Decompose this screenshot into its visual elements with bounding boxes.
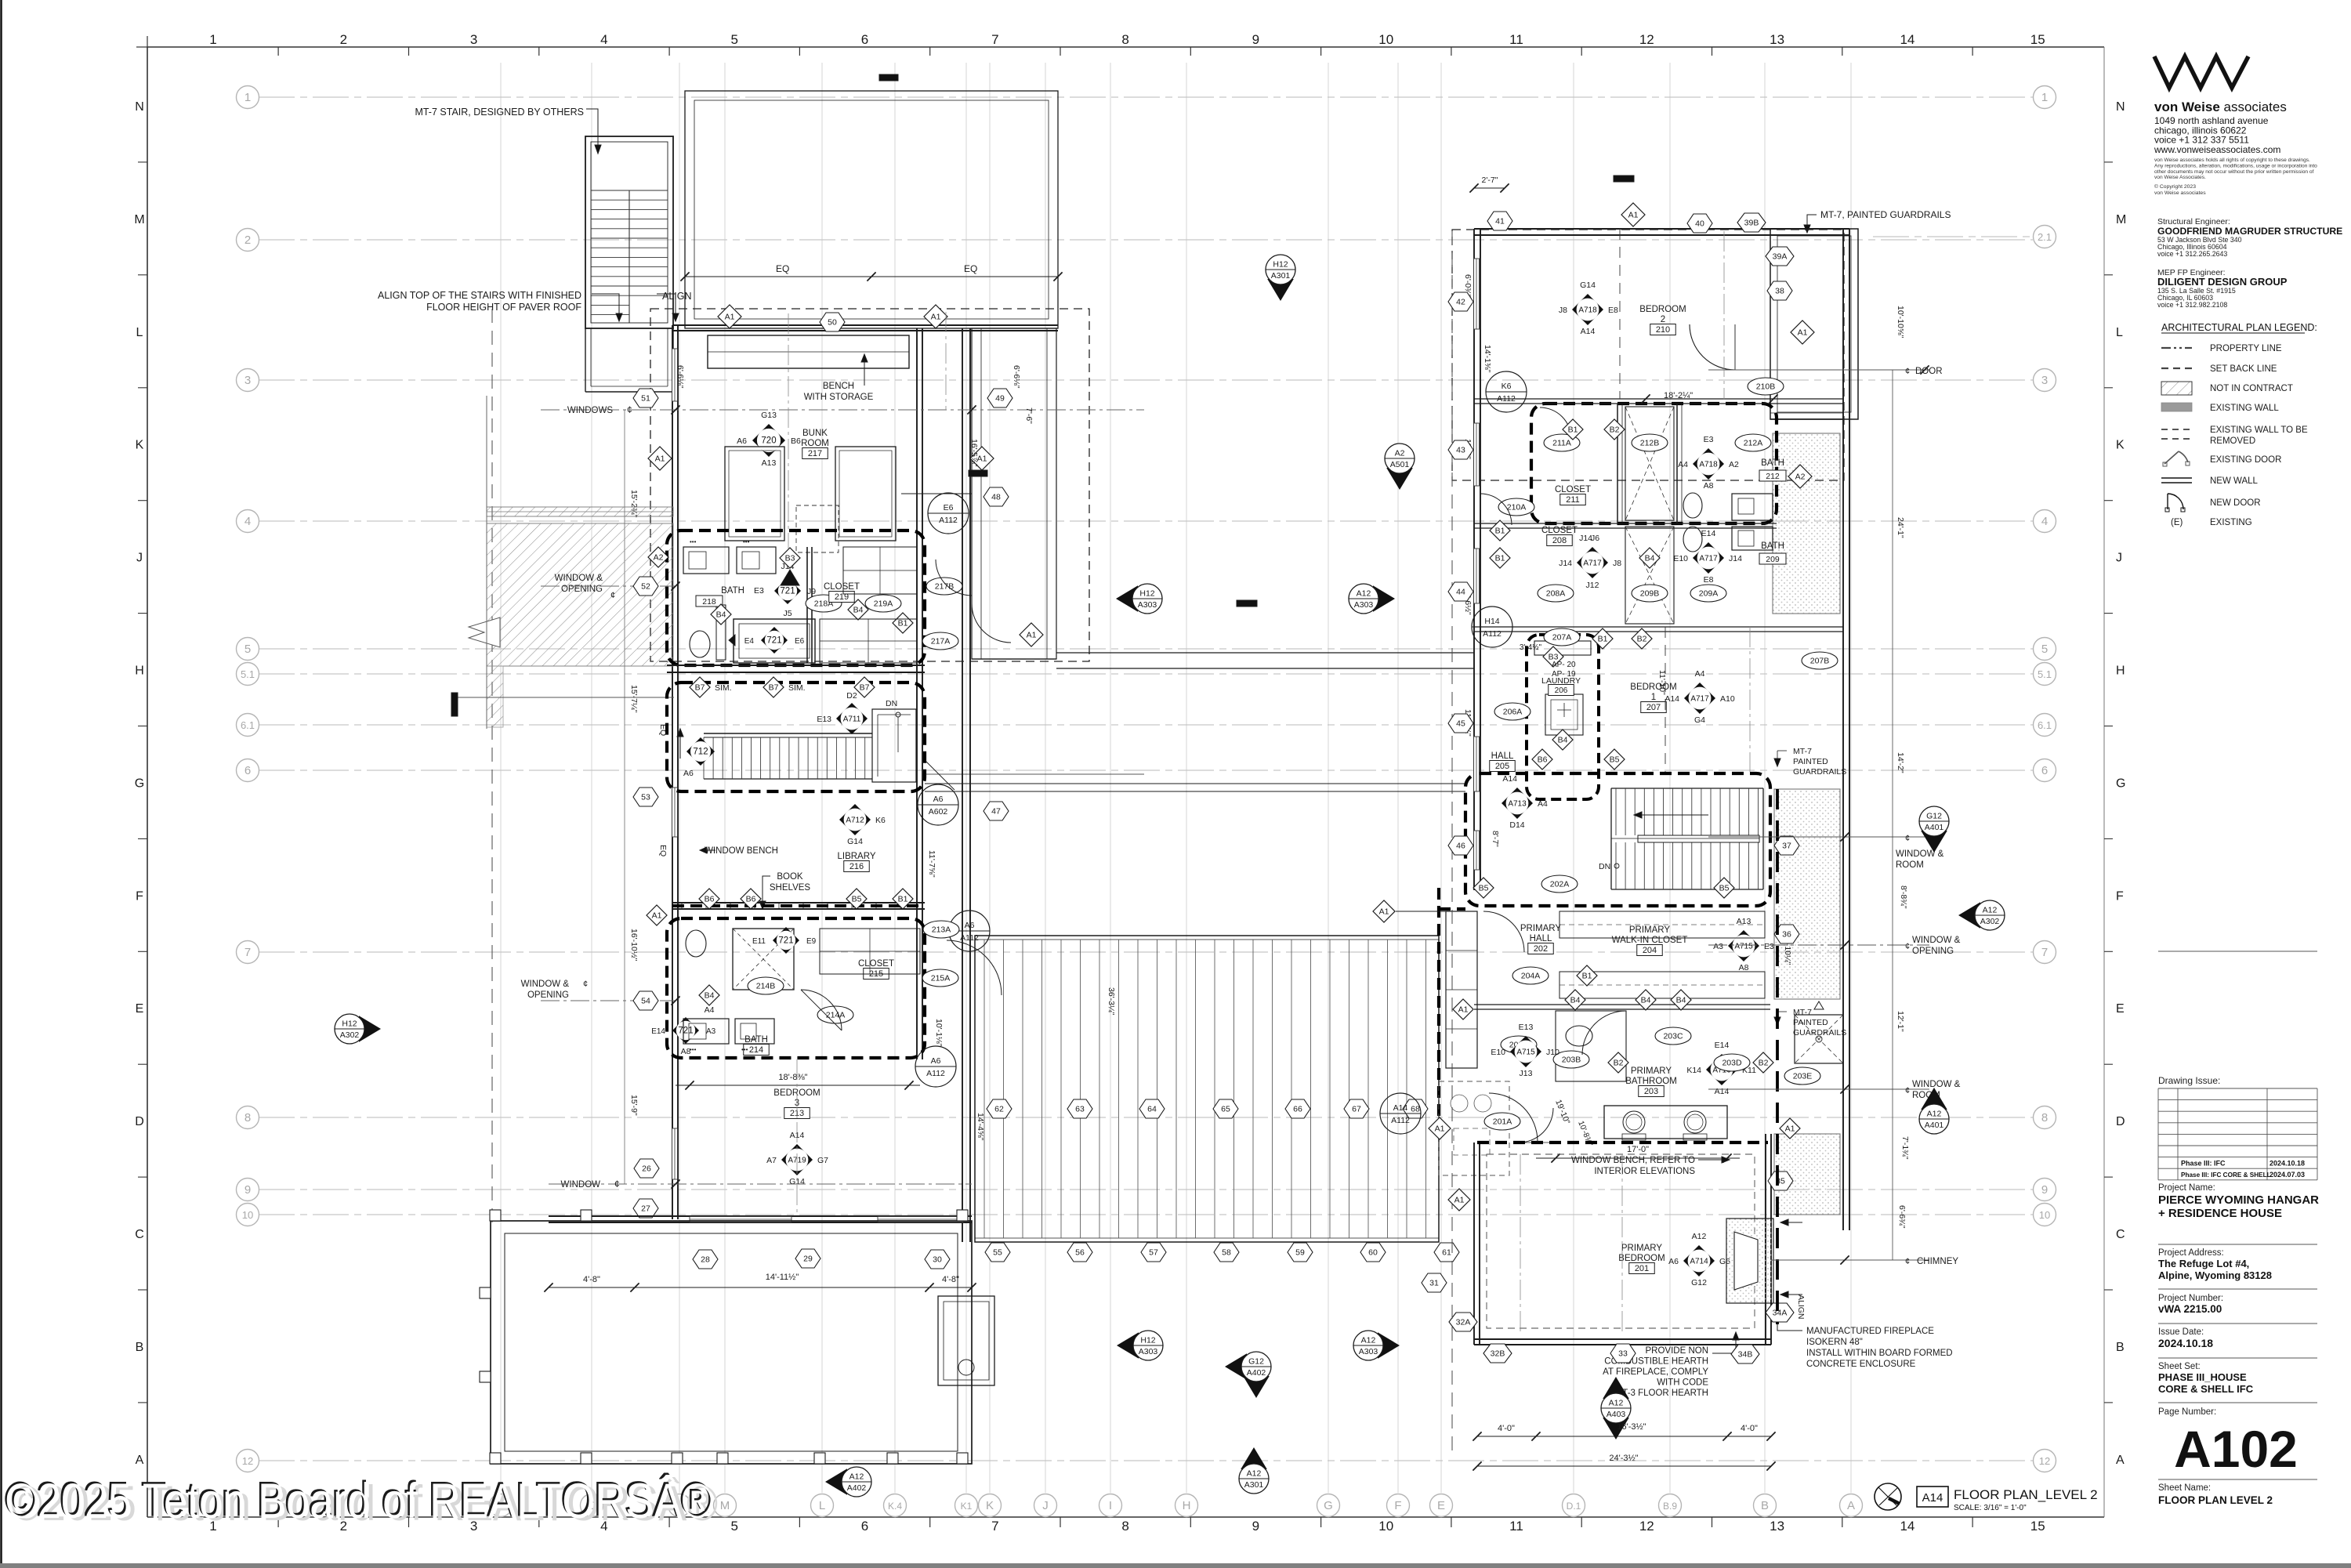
svg-text:ALIGN: ALIGN: [1796, 1295, 1806, 1320]
svg-text:EXISTING: EXISTING: [2210, 518, 2252, 527]
svg-text:15: 15: [2030, 1519, 2045, 1534]
svg-text:HALL: HALL: [1530, 934, 1552, 943]
svg-text:G12: G12: [1926, 812, 1942, 821]
svg-text:E6: E6: [944, 503, 954, 512]
svg-text:B7: B7: [695, 683, 705, 693]
tag diamond B1: [893, 613, 913, 633]
section marker A12/A403: [1601, 1377, 1631, 1439]
svg-text:A4: A4: [1695, 669, 1705, 679]
svg-text:LIBRARY: LIBRARY: [837, 852, 875, 861]
svg-text:64: 64: [1147, 1105, 1157, 1114]
fence line west: [486, 396, 487, 729]
svg-text:6: 6: [861, 1519, 868, 1534]
svg-text:12'-1": 12'-1": [1896, 1011, 1905, 1032]
svg-text:B3: B3: [785, 554, 795, 563]
tag diamond B4: [1552, 730, 1573, 750]
svg-text:7: 7: [2041, 946, 2048, 959]
marker diamond A715: [1510, 1036, 1541, 1067]
svg-text:1: 1: [209, 32, 216, 47]
svg-text:F: F: [1394, 1499, 1401, 1512]
svg-text:3: 3: [470, 32, 477, 47]
svg-text:A717: A717: [1583, 559, 1602, 568]
window tag 46: [1448, 836, 1473, 855]
svg-text:A8: A8: [1704, 481, 1714, 491]
door tag 217B: [926, 578, 962, 595]
door tag 207B: [1802, 652, 1838, 669]
svg-text:J12: J12: [1586, 581, 1599, 590]
room label 217: [801, 429, 829, 459]
svg-text:EXISTING WALL TO BE: EXISTING WALL TO BE: [2210, 425, 2308, 435]
svg-text:K: K: [136, 439, 144, 452]
svg-text:D.1: D.1: [1567, 1501, 1581, 1512]
svg-text:6'-6⅛": 6'-6⅛": [1012, 365, 1021, 389]
east terrace band of left wing: [972, 328, 1056, 659]
svg-text:4: 4: [245, 515, 251, 528]
svg-text:Project Number:: Project Number:: [2158, 1294, 2223, 1303]
svg-text:E4: E4: [744, 637, 755, 646]
bath214 vanity: [683, 1019, 729, 1044]
window tag 26: [634, 1159, 659, 1178]
tag diamond A2: [648, 547, 668, 567]
svg-text:A12: A12: [1927, 1110, 1942, 1119]
svg-text:2: 2: [1661, 315, 1665, 324]
svg-text:ARCHITECTURAL PLAN LEGEND:: ARCHITECTURAL PLAN LEGEND:: [2161, 322, 2317, 333]
svg-text:Phase III: IFC: Phase III: IFC: [2181, 1160, 2226, 1168]
marker diamond A719: [781, 1144, 813, 1175]
svg-text:K1: K1: [961, 1501, 973, 1512]
legend property line: [2161, 347, 2192, 349]
svg-text:E8: E8: [1704, 575, 1714, 585]
svg-text:A3: A3: [706, 1027, 716, 1036]
room label 219: [824, 582, 860, 603]
svg-text:206A: 206A: [1503, 708, 1523, 717]
svg-text:B5: B5: [1719, 884, 1730, 893]
door tag 203A: [1501, 1036, 1537, 1053]
window tag 29: [795, 1249, 820, 1268]
tag diamond A2: [1788, 465, 1812, 488]
svg-text:209A: 209A: [1699, 589, 1719, 599]
svg-text:4: 4: [2041, 515, 2048, 528]
svg-text:A12: A12: [1983, 906, 1998, 915]
svg-text:WITH STORAGE: WITH STORAGE: [804, 393, 874, 402]
legend existing door: [2164, 451, 2188, 464]
svg-text:M: M: [2116, 213, 2126, 226]
svg-text:A303: A303: [1354, 600, 1374, 610]
existing wall stipple strips: [1773, 433, 1840, 614]
svg-text:49: 49: [995, 394, 1005, 404]
tag diamond B2: [1608, 1052, 1628, 1073]
legend existing wall: [2161, 403, 2192, 411]
svg-text:ALIGN TOP OF THE STAIRS WITH F: ALIGN TOP OF THE STAIRS WITH FINISHED: [378, 290, 581, 301]
section marker G12/A401: [1919, 806, 1949, 853]
tag diamond A1: [1448, 1189, 1470, 1211]
svg-text:61: 61: [1442, 1248, 1451, 1258]
svg-text:3'-4½": 3'-4½": [1520, 643, 1542, 652]
marker diamond A717: [1684, 683, 1715, 714]
svg-text:2024.07.03: 2024.07.03: [2269, 1171, 2305, 1179]
bottom-left deck: [491, 1221, 972, 1464]
stair lower flight wall: [585, 328, 586, 392]
svg-text:Project Name:: Project Name:: [2158, 1183, 2215, 1193]
svg-text:50: 50: [828, 318, 837, 328]
window tag 66: [1285, 1099, 1310, 1118]
svg-text:Sheet Name:: Sheet Name:: [2158, 1483, 2211, 1493]
svg-text:MANUFACTURED FIREPLACE: MANUFACTURED FIREPLACE: [1806, 1327, 1934, 1336]
svg-text:E: E: [2116, 1002, 2125, 1016]
svg-text:Alpine, Wyoming 83128: Alpine, Wyoming 83128: [2158, 1269, 2272, 1281]
svg-text:BUNK: BUNK: [802, 429, 828, 438]
svg-text:47: 47: [991, 807, 1001, 817]
room label 215: [858, 959, 894, 980]
window centerline bedroom3: [796, 1059, 798, 1216]
von Weise associates logo: [2154, 56, 2248, 88]
leader from match bar: [457, 697, 674, 698]
svg-text:A112: A112: [1391, 1116, 1410, 1125]
svg-text:¢: ¢: [1905, 367, 1910, 376]
svg-text:60: 60: [1368, 1248, 1378, 1258]
svg-text:A1: A1: [1027, 631, 1037, 640]
window tag 35: [1768, 1171, 1793, 1190]
svg-text:B: B: [136, 1341, 144, 1354]
svg-text:A102: A102: [2174, 1420, 2298, 1478]
svg-text:MT-7, PAINTED GUARDRAILS: MT-7, PAINTED GUARDRAILS: [1820, 209, 1951, 220]
svg-text:A1: A1: [1454, 1196, 1465, 1205]
svg-text:216: 216: [849, 862, 864, 871]
svg-text:B1: B1: [898, 619, 908, 628]
section marker H12/A303: [1116, 584, 1162, 614]
svg-text:201: 201: [1635, 1264, 1649, 1273]
svg-text:PRIMARY: PRIMARY: [1629, 925, 1671, 935]
window tag 43: [1448, 440, 1473, 459]
door tag 218A: [806, 595, 842, 612]
tag diamond A1: [1791, 320, 1814, 344]
svg-text:MT-3 FLOOR HEARTH: MT-3 FLOOR HEARTH: [1615, 1389, 1708, 1398]
svg-text:A3: A3: [1713, 942, 1723, 951]
svg-text:SET BACK LINE: SET BACK LINE: [2210, 364, 2277, 374]
svg-text:CLOSET: CLOSET: [1555, 485, 1591, 494]
svg-text:2'-7": 2'-7": [1482, 176, 1498, 185]
tag diamond A1: [970, 447, 994, 470]
svg-text:A402: A402: [847, 1483, 867, 1493]
tag diamond B7: [763, 677, 784, 697]
marker diamond A718: [1572, 294, 1603, 325]
dashed A1 datum rectangle around bunk room: [650, 309, 1089, 661]
svg-text:voice +1 312.982.2108: voice +1 312.982.2108: [2157, 301, 2227, 309]
room label 216: [837, 852, 875, 872]
svg-text:18'-8⅜": 18'-8⅜": [778, 1073, 807, 1082]
A14/A112 callout left of deck: [1380, 1093, 1421, 1134]
tag diamond B4: [699, 985, 719, 1005]
H14 A112 callout: [1472, 607, 1512, 647]
svg-text:NOT IN CONTRACT: NOT IN CONTRACT: [2210, 384, 2293, 393]
door tag 210A: [1498, 498, 1534, 516]
svg-text:D: D: [2116, 1115, 2125, 1128]
svg-text:B4: B4: [1641, 996, 1651, 1005]
right wing interior stair: [1610, 788, 1612, 889]
svg-text:12: 12: [2039, 1455, 2050, 1467]
svg-text:other documents may not occur: other documents may not occur without th…: [2154, 169, 2314, 175]
door tag 204A: [1512, 967, 1549, 984]
svg-text:5: 5: [245, 643, 251, 656]
svg-text:EQ: EQ: [776, 263, 789, 274]
svg-text:B4: B4: [1676, 996, 1686, 1005]
svg-text:5: 5: [730, 1519, 737, 1534]
svg-text:218: 218: [702, 597, 716, 607]
svg-text:E: E: [136, 1002, 144, 1016]
tag diamond B3: [1543, 646, 1563, 667]
hatch tail: [487, 666, 503, 727]
black match bar mid: [969, 470, 987, 476]
door tag 210B: [1748, 378, 1784, 395]
svg-text:G13: G13: [761, 411, 777, 420]
section marker A12/A302: [1958, 900, 2005, 930]
svg-text:PRIMARY: PRIMARY: [1631, 1066, 1672, 1076]
svg-text:J8: J8: [1559, 306, 1567, 315]
window tag 30: [925, 1250, 950, 1269]
svg-text:39B: 39B: [1744, 219, 1759, 228]
svg-text:A14: A14: [1922, 1491, 1943, 1505]
break notch: [469, 617, 500, 647]
room label 203: [1625, 1066, 1677, 1097]
svg-text:B1: B1: [1598, 635, 1608, 644]
svg-text:BOOK: BOOK: [777, 872, 803, 882]
window tag 48: [984, 487, 1009, 506]
svg-text:712: 712: [693, 748, 708, 757]
svg-text:•••: •••: [743, 538, 750, 545]
bath block heavy dashed boundary: [1531, 404, 1777, 523]
svg-text:A1: A1: [1798, 328, 1808, 338]
svg-text:von Weise associates holds all: von Weise associates holds all rights of…: [2154, 158, 2310, 163]
svg-text:I: I: [1109, 1499, 1112, 1512]
E6 A112 callout: [928, 493, 969, 534]
tag diamond B4: [1639, 548, 1660, 568]
marker diamond A717: [1693, 542, 1724, 574]
svg-text:52: 52: [641, 582, 650, 592]
svg-text:46: 46: [1456, 842, 1465, 851]
primary shower: [1795, 1015, 1843, 1063]
svg-text:E3: E3: [754, 586, 764, 596]
svg-text:15: 15: [2030, 32, 2045, 47]
window centerline left building 2: [945, 312, 947, 410]
svg-text:65: 65: [1221, 1105, 1230, 1114]
window tag 31: [1422, 1273, 1447, 1292]
marker diamond A712: [839, 804, 871, 835]
drawing frame: [147, 46, 2104, 48]
section marker H12/A302: [335, 1014, 381, 1044]
svg-text:42: 42: [1456, 298, 1465, 307]
svg-text:B4: B4: [1645, 554, 1655, 563]
window tag 38: [1767, 281, 1792, 300]
svg-text:A718: A718: [1699, 461, 1718, 469]
window tag 58: [1214, 1243, 1239, 1262]
svg-text:203: 203: [1644, 1087, 1658, 1096]
svg-text:A4: A4: [705, 1005, 715, 1015]
svg-text:3: 3: [245, 374, 251, 387]
svg-text:J: J: [1042, 1499, 1049, 1512]
room label 206: [1541, 676, 1581, 696]
svg-text:J5: J5: [783, 609, 792, 618]
svg-text:A401: A401: [1925, 823, 1944, 832]
window tag 64: [1139, 1099, 1165, 1118]
svg-text:A12: A12: [1361, 1336, 1376, 1345]
svg-text:B6: B6: [746, 895, 756, 904]
svg-text:L: L: [136, 326, 143, 339]
svg-text:721: 721: [766, 636, 781, 646]
svg-text:WITH CODE: WITH CODE: [1657, 1378, 1708, 1388]
window tag 34A: [1766, 1303, 1794, 1322]
svg-text:B5: B5: [852, 895, 862, 904]
marker diamond 721: [672, 1017, 699, 1044]
section marker A12/A303: [1349, 584, 1395, 614]
svg-text:B2: B2: [1759, 1059, 1769, 1068]
svg-text:PROPERTY LINE: PROPERTY LINE: [2210, 344, 2282, 353]
svg-text:6.1: 6.1: [241, 719, 255, 731]
right wing west dashed lines: [1451, 231, 1453, 885]
svg-text:H: H: [1183, 1499, 1191, 1512]
svg-text:721: 721: [778, 936, 793, 946]
svg-text:A13: A13: [762, 458, 777, 468]
svg-text:215A: 215A: [931, 974, 951, 983]
svg-text:7: 7: [991, 32, 998, 47]
horizontal grid lines with bubbles: [259, 96, 2033, 98]
tag diamond B5: [1604, 749, 1625, 770]
svg-text:B2: B2: [1610, 425, 1620, 435]
misc leader center: [901, 493, 972, 494]
svg-text:36: 36: [1782, 930, 1791, 940]
svg-text:211A: 211A: [1552, 439, 1571, 448]
svg-text:¢: ¢: [1905, 1086, 1910, 1095]
svg-text:11'-7⅝": 11'-7⅝": [927, 850, 936, 878]
tag diamond B7: [690, 677, 710, 697]
marker diamond A716: [1706, 1054, 1737, 1085]
svg-text:27: 27: [641, 1204, 650, 1214]
svg-text:K: K: [2116, 439, 2125, 452]
svg-text:A1: A1: [1379, 907, 1389, 917]
svg-text:PIERCE WYOMING HANGAR: PIERCE WYOMING HANGAR: [2158, 1193, 2319, 1207]
svg-text:12: 12: [1639, 1519, 1654, 1534]
svg-text:16'-5⅞": 16'-5⅞": [969, 439, 979, 467]
svg-text:J8: J8: [1613, 559, 1621, 568]
window tag 47: [984, 802, 1009, 820]
svg-text:BEDROOM: BEDROOM: [1630, 683, 1676, 692]
svg-text:WINDOW BENCH, REFER TO: WINDOW BENCH, REFER TO: [1571, 1156, 1695, 1165]
svg-text:41: 41: [1495, 217, 1505, 226]
primary bedroom dims: [1477, 1436, 1771, 1437]
interior stair: [704, 733, 872, 734]
svg-text:A302: A302: [1980, 917, 2000, 926]
walkway bridge lines upper: [1056, 652, 1474, 654]
svg-text:•••: •••: [690, 538, 697, 545]
svg-text:211: 211: [1566, 495, 1580, 505]
svg-text:212: 212: [1766, 472, 1780, 481]
svg-text:AP- 20: AP- 20: [1552, 661, 1576, 669]
svg-text:A14: A14: [1393, 1103, 1408, 1113]
tag diamond A1: [647, 905, 667, 925]
svg-text:12: 12: [242, 1455, 253, 1467]
svg-text:REMOVED: REMOVED: [2210, 436, 2255, 446]
svg-text:G: G: [135, 777, 144, 790]
svg-text:A712: A712: [846, 817, 864, 825]
svg-text:62: 62: [994, 1105, 1004, 1114]
window tag 61: [1434, 1243, 1459, 1262]
svg-text:8: 8: [2041, 1111, 2048, 1124]
tag diamond B2: [1753, 1052, 1773, 1073]
window tag 67: [1344, 1099, 1369, 1118]
marker diamond A714: [1683, 1245, 1715, 1276]
svg-text:CONCRETE ENCLOSURE: CONCRETE ENCLOSURE: [1806, 1360, 1916, 1369]
shower bath214: [733, 929, 794, 990]
svg-text:203B: 203B: [1562, 1056, 1581, 1065]
A6/A112 callout: [949, 911, 990, 951]
door tag 201A: [1484, 1113, 1520, 1130]
bookshelf band: [672, 902, 925, 904]
closet wardrobes: [1559, 911, 1765, 938]
svg-text:A1: A1: [1435, 1124, 1445, 1134]
svg-text:204A: 204A: [1521, 972, 1541, 981]
svg-text:A303: A303: [1138, 600, 1157, 610]
svg-text:•••: •••: [741, 1046, 748, 1053]
svg-text:6: 6: [245, 764, 251, 777]
svg-text:SIM.: SIM.: [788, 683, 806, 693]
svg-text:Page Number:: Page Number:: [2158, 1407, 2216, 1417]
svg-text:A717: A717: [1699, 555, 1718, 563]
svg-text:OPENING: OPENING: [1912, 947, 1954, 956]
svg-text:A1: A1: [652, 911, 662, 921]
svg-text:K: K: [986, 1499, 994, 1512]
svg-text:37: 37: [1782, 842, 1791, 851]
svg-text:WINDOWS: WINDOWS: [567, 406, 613, 415]
svg-text:©2025 Teton Board of REALTORSÂ: ©2025 Teton Board of REALTORSÂ®: [6, 1474, 713, 1529]
svg-text:www.vonweiseassociates.com: www.vonweiseassociates.com: [2154, 144, 2280, 155]
svg-text:10: 10: [2039, 1209, 2050, 1221]
door tag 214B: [748, 977, 784, 994]
svg-text:9: 9: [1252, 1519, 1259, 1534]
svg-text:PAINTED: PAINTED: [1793, 757, 1828, 766]
svg-text:34A: 34A: [1773, 1309, 1788, 1318]
svg-text:39A: 39A: [1773, 252, 1788, 262]
laundry appliances: [1534, 641, 1591, 655]
svg-text:15'-7¼": 15'-7¼": [629, 685, 639, 713]
svg-text:54: 54: [641, 997, 650, 1006]
svg-text:¢: ¢: [583, 980, 588, 989]
tag diamond A1: [924, 305, 947, 328]
svg-text:HALL: HALL: [1491, 751, 1514, 761]
room label 204: [1612, 925, 1688, 956]
window tag 65: [1213, 1099, 1238, 1118]
svg-text:J: J: [136, 552, 143, 565]
drawing issue table: [2158, 951, 2317, 952]
svg-text:GUARDRAILS: GUARDRAILS: [1793, 767, 1846, 777]
svg-text:E14: E14: [1701, 529, 1716, 538]
svg-text:202A: 202A: [1550, 880, 1570, 889]
svg-text:721: 721: [678, 1027, 693, 1036]
svg-text:2: 2: [340, 32, 347, 47]
svg-text:212B: 212B: [1640, 439, 1660, 448]
svg-text:7'-1¾": 7'-1¾": [1900, 1136, 1910, 1160]
svg-text:BEDROOM: BEDROOM: [1639, 305, 1686, 314]
svg-text:¢: ¢: [1905, 942, 1910, 951]
svg-text:B4: B4: [705, 991, 715, 1001]
tag diamond A1: [648, 447, 672, 470]
svg-text:G: G: [2116, 777, 2125, 790]
svg-text:A401: A401: [1925, 1121, 1944, 1130]
svg-text:ROOM: ROOM: [1896, 860, 1924, 870]
svg-text:66: 66: [1293, 1105, 1302, 1114]
door swing bath214: [801, 990, 842, 1030]
door tag 206A: [1494, 703, 1531, 720]
room label 210: [1639, 305, 1686, 335]
svg-text:A7: A7: [766, 1156, 777, 1165]
